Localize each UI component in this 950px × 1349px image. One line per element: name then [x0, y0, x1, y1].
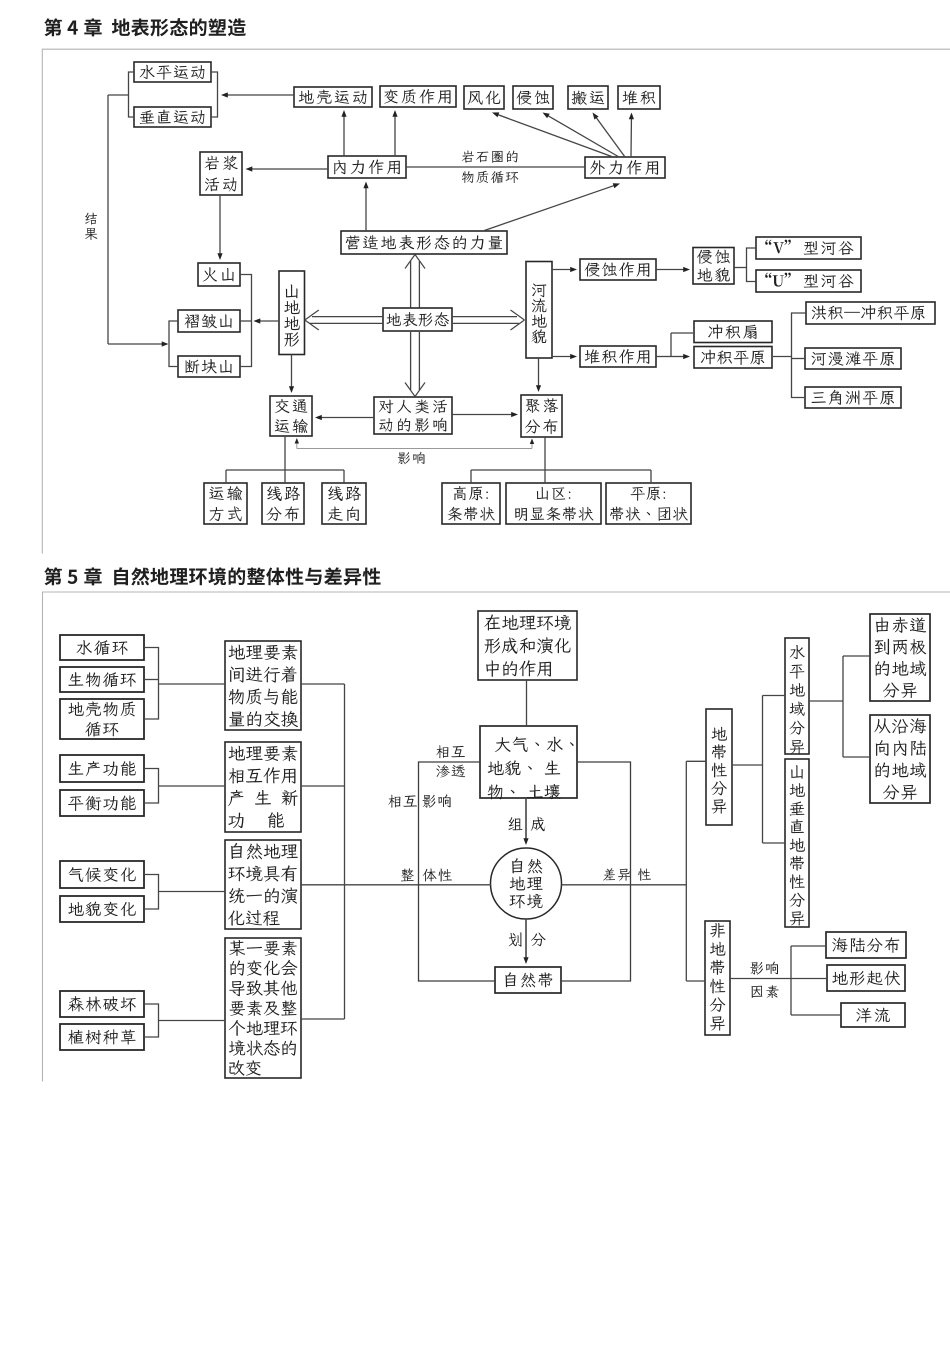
box 变质作用	[380, 86, 456, 107]
box 自然带	[495, 967, 561, 993]
wire → 山地垂直地带性分异	[763, 842, 786, 844]
arrow 河流地貌 → 侵蚀作用	[552, 269, 573, 271]
wire 堆积作用 → 冲积扇/冲积平原 split	[656, 356, 671, 358]
wire → 洋流	[791, 1014, 841, 1016]
wire → 海陆分布	[791, 945, 826, 947]
box 洋流	[841, 1003, 905, 1027]
bracket 水循环/生物循环/地壳物质循环	[144, 648, 159, 720]
bracket 气候变化/地貌变化	[144, 875, 159, 910]
label 差异|性 (straddles loop line)	[603, 868, 630, 881]
box 聚落分布	[521, 395, 562, 437]
box 侵蚀地貌	[693, 248, 734, 285]
bracket right of 水平运动/垂直运动	[211, 72, 218, 117]
heading chapter 5	[44, 567, 380, 585]
bracket 森林破坏/植树种草	[144, 1004, 159, 1037]
box 冲积平原	[694, 347, 772, 369]
box 堆积作用	[580, 346, 656, 367]
double arrow 地表形态 → 营造地表形态的力量	[410, 261, 412, 308]
box "U"型河谷	[756, 270, 861, 292]
label 影响/因素	[750, 962, 778, 975]
label 相互/渗透	[436, 745, 465, 758]
box 平衡功能	[60, 790, 144, 816]
box 外力作用	[585, 157, 665, 178]
wire → 由赤道到两极的地域分异	[843, 655, 870, 657]
arrow 对人类活动的影响 → 聚落分布	[452, 414, 514, 416]
box 水循环	[60, 635, 144, 660]
box 大气、水、地貌、生物、土壤	[480, 726, 577, 798]
bracket 生产功能/平衡功能	[144, 769, 159, 804]
arrow 内力作用 → 变质作用	[394, 114, 396, 156]
box 地表形态	[383, 308, 452, 331]
box 水平地域分异	[785, 638, 809, 754]
label 岩石圈的 物质循环	[462, 151, 518, 163]
box 山地地形	[279, 271, 305, 355]
box 地理要素间进行着物质与能量的交换	[225, 641, 301, 730]
wire 某一要素... → collector	[301, 1018, 345, 1020]
box 地壳物质循环	[60, 699, 144, 739]
arrow 外力作用 → 堆积	[630, 117, 632, 158]
arrow 山地地形 → 交通运输	[291, 355, 293, 390]
box 山区:明显条带状	[506, 483, 601, 524]
wire 地理要素间... → collector	[301, 683, 345, 685]
box 某一要素的变化会导致其他要素及整个地理环境状态的改变	[225, 938, 301, 1078]
loop left: 大气 box ↔ 自然带 (相互影响)	[419, 762, 496, 981]
bracket 火山/褶皱山/断块山 (right side)	[240, 275, 252, 367]
box 森林破坏	[60, 991, 144, 1017]
collector vertical joining description boxes	[344, 684, 346, 1019]
wire → 水平地域分异	[763, 695, 786, 697]
box 火山	[198, 263, 240, 286]
label 整|体性 (straddles loop line)	[401, 868, 414, 881]
collector 2 vertical (地带性/非地带性分异)	[685, 761, 687, 981]
box 堆积	[618, 86, 660, 109]
box 营造地表形态的力量	[341, 231, 507, 254]
arrow 河流地貌 → 聚落分布	[538, 358, 540, 388]
box 交通运输	[270, 396, 312, 436]
wire bracket → 某一要素...	[159, 1020, 226, 1022]
box 岩浆活动	[200, 152, 242, 195]
wire 地理要素相互作用... → collector	[301, 785, 345, 787]
arrow 内力作用 → 地壳运动	[343, 114, 345, 156]
box 线路走向	[322, 483, 366, 524]
box 地貌变化	[60, 896, 144, 922]
wire 内力作用 — 外力作用 (岩石圈的物质循环)	[406, 166, 585, 168]
box 断块山	[178, 356, 240, 377]
box 垂直运动	[134, 107, 211, 127]
wire bracket → 地理要素间进行着...	[159, 683, 226, 685]
wire 在地理环境...作用 → 大气 box	[526, 680, 528, 726]
box 生物循环	[60, 667, 144, 692]
box 对人类活动的影响	[374, 397, 452, 434]
box 山地垂直地带性分异	[785, 759, 809, 927]
wire bracket → 自然地理环境具有统一的演化过程	[159, 891, 226, 893]
arrow 地壳运动 → 水平/垂直运动 bracket	[225, 94, 294, 96]
box 地壳运动	[294, 87, 372, 107]
heading chapter 4	[44, 18, 246, 36]
box 植树种草	[60, 1024, 144, 1050]
arrow 对人类活动的影响 → 交通运输	[319, 417, 374, 419]
wire 非地带性分异 → 影响因素 → 地形起伏	[730, 978, 827, 980]
wire bracket → 地理要素相互作用...	[159, 785, 226, 787]
arrow 岩浆活动 → 火山	[219, 195, 221, 256]
label 划|分	[509, 932, 522, 946]
arrow 河流地貌 → 堆积作用	[552, 356, 573, 358]
box 风化	[464, 86, 504, 109]
label 影响	[398, 452, 425, 464]
box 地理要素相互作用产生新功能	[225, 742, 301, 832]
wire 水平地域分异 → split vertical 2	[809, 700, 843, 702]
double arrow 地表形态 → 对人类活动的影响	[410, 331, 412, 391]
arrow 内力作用 → 岩浆活动	[250, 168, 329, 170]
arrow 营造地表形态的力量 → 外力作用	[483, 185, 616, 231]
label 相互|影响 (straddles loop line)	[388, 795, 417, 808]
box 冲积扇	[694, 321, 772, 343]
box "V"型河谷	[756, 237, 861, 259]
arrow 山地地形 → 褶皱山 bracket	[258, 320, 280, 322]
bracket 冲积平原 → 洪积/河漫滩/三角洲平原	[773, 356, 792, 358]
box 生产功能	[60, 755, 144, 782]
box 三角洲平原	[805, 387, 901, 408]
bracket joining 水平运动/垂直运动 (left side) to 结果 line	[129, 72, 135, 117]
wire collector2 → 非地带性分异	[686, 980, 705, 982]
loop right: 大气 box ↔ 自然带	[561, 762, 631, 981]
arrow 影响 → 聚落分布 (up)	[531, 441, 533, 449]
box 平原:带状、团状	[606, 483, 691, 524]
bracket left of 褶皱山/断块山	[169, 321, 178, 367]
double arrow 地表形态 → 河流地貌	[452, 316, 517, 318]
box 搬运	[568, 86, 608, 109]
box 非地带性分异	[705, 921, 730, 1035]
box 地形起伏	[827, 965, 905, 991]
box 河流地貌	[526, 262, 552, 359]
arrow 侵蚀作用 → 侵蚀地貌	[656, 269, 686, 271]
arrow 外力作用 → 风化	[496, 114, 613, 157]
box 地带性分异	[706, 709, 732, 825]
box 运输方式	[204, 483, 247, 524]
arrow 大气 box → circle (组成)	[525, 798, 527, 841]
box 侵蚀作用	[580, 259, 656, 280]
wire 整体性 main line → circle	[301, 884, 491, 886]
arrow 影响 → 交通运输 (up)	[296, 441, 298, 449]
bracket 侵蚀地貌 → V/U 型河谷	[734, 267, 747, 269]
arrow into 冲积平原	[671, 356, 686, 358]
double arrow 地表形态 → 山地地形	[312, 316, 383, 318]
wire 差异性 line: circle → collector 2	[562, 884, 687, 886]
wire collector2 → 地带性分异	[686, 760, 706, 762]
box 褶皱山	[178, 310, 240, 332]
box 内力作用	[328, 156, 406, 178]
box 线路分布	[262, 483, 304, 524]
box 气候变化	[60, 861, 144, 888]
wire 影响 line between 交通运输 and 聚落分布	[297, 448, 532, 450]
tree 交通运输 → 运输方式/线路分布/线路走向	[284, 436, 286, 483]
diagram 1 border (top and left rule)	[42, 49, 950, 553]
label 组|成	[508, 817, 522, 830]
wire 结果 long vertical with arrow to 褶皱山/断块山 bracket	[107, 95, 109, 344]
box 在地理环境形成和演化中的作用	[478, 611, 577, 680]
split vertical for 水平/山地垂直	[762, 696, 764, 844]
box 自然地理环境具有统一的演化过程	[225, 840, 301, 929]
box 海陆分布	[826, 932, 906, 958]
arrow 营造地表形态的力量 → 内力作用	[365, 186, 367, 232]
box 由赤道到两极的地域分异	[870, 614, 930, 701]
box 高原:条带状	[442, 483, 500, 524]
box 水平运动	[134, 62, 211, 82]
box 河漫滩平原	[805, 348, 901, 369]
box 从沿海向内陆的地域分异	[870, 715, 930, 803]
arrow 外力作用 → 搬运	[595, 116, 625, 157]
circle 自然地理环境	[491, 848, 562, 919]
label 结果 (vertical)	[85, 213, 97, 225]
tree 聚落分布 → 高原/山区/平原	[544, 437, 546, 483]
wire → 从沿海向内陆的地域分异	[843, 756, 870, 758]
wire into 冲积扇	[671, 332, 693, 334]
box 洪积—冲积平原	[806, 302, 935, 324]
split vertical 2 for 由赤道/从沿海	[842, 656, 844, 757]
diagram 2 border (top and left rule)	[43, 592, 950, 1082]
bracket 海陆分布/地形起伏/洋流	[790, 946, 792, 1015]
arrow circle → 自然带 (划分)	[525, 919, 527, 960]
arrow 外力作用 → 侵蚀	[546, 115, 619, 157]
wire 地带性分异 → split vertical	[732, 764, 763, 766]
box 侵蚀	[513, 86, 553, 109]
